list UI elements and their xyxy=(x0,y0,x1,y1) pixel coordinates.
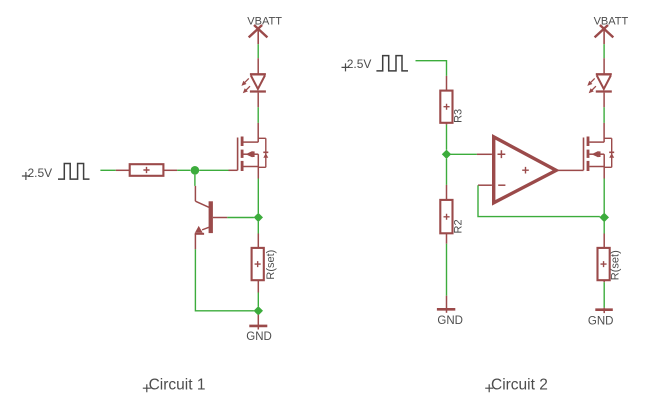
svg-text:GND: GND xyxy=(588,315,614,327)
svg-text:VBATT: VBATT xyxy=(247,15,282,27)
svg-text:R3: R3 xyxy=(453,109,465,123)
svg-text:GND: GND xyxy=(246,331,272,343)
svg-text:GND: GND xyxy=(437,315,463,327)
svg-text:2.5V: 2.5V xyxy=(347,57,372,71)
svg-text:R(set): R(set) xyxy=(265,250,277,280)
svg-text:R2: R2 xyxy=(453,219,465,233)
svg-text:Circuit 2: Circuit 2 xyxy=(491,377,548,394)
svg-text:2.5V: 2.5V xyxy=(28,166,53,180)
svg-text:Circuit 1: Circuit 1 xyxy=(149,377,206,394)
svg-text:VBATT: VBATT xyxy=(594,16,629,28)
svg-text:R(set): R(set) xyxy=(610,250,622,280)
